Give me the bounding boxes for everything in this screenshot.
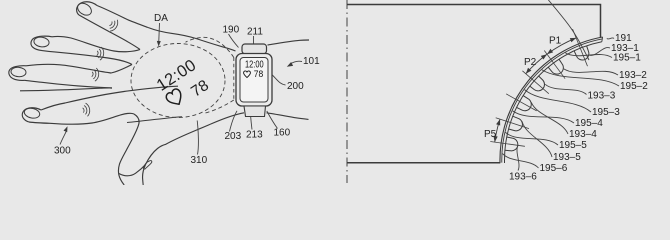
svg-text:160: 160 — [274, 128, 291, 139]
svg-text:211: 211 — [247, 27, 263, 38]
svg-text:200: 200 — [287, 81, 304, 92]
svg-text:190: 190 — [223, 25, 240, 36]
svg-text:193–5: 193–5 — [553, 152, 581, 163]
svg-text:78: 78 — [188, 77, 212, 101]
svg-text:195–3: 195–3 — [592, 107, 620, 118]
svg-text:300: 300 — [54, 146, 71, 157]
svg-text:193–2: 193–2 — [619, 70, 647, 81]
svg-text:78: 78 — [254, 69, 263, 80]
svg-text:193–6: 193–6 — [509, 172, 537, 183]
svg-text:P1: P1 — [549, 36, 562, 47]
svg-text:195–6: 195–6 — [540, 163, 568, 174]
svg-text:193–3: 193–3 — [588, 91, 616, 102]
svg-text:195–4: 195–4 — [575, 118, 603, 129]
svg-text:P2: P2 — [524, 57, 537, 68]
svg-text:195–5: 195–5 — [559, 140, 587, 151]
svg-text:203: 203 — [225, 131, 242, 142]
svg-text:213: 213 — [246, 130, 263, 141]
svg-text:101: 101 — [303, 56, 320, 67]
svg-text:310: 310 — [191, 155, 208, 166]
svg-text:DA: DA — [154, 13, 168, 24]
svg-text:193–4: 193–4 — [569, 129, 597, 140]
svg-text:195–2: 195–2 — [620, 81, 648, 92]
svg-text:P5: P5 — [484, 129, 497, 140]
svg-text:195–1: 195–1 — [613, 53, 641, 64]
